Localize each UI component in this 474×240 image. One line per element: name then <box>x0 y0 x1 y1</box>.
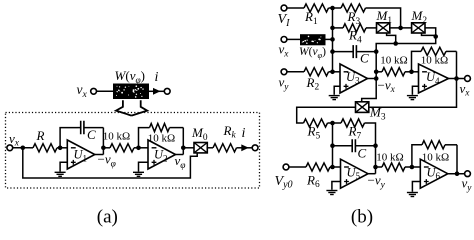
label U4 <box>426 70 440 86</box>
svg-text:(a): (a) <box>97 206 118 227</box>
label i (emulator output current) <box>242 126 246 141</box>
capacitor C (U3 integrator) <box>333 45 377 58</box>
wire <box>97 90 114 92</box>
node U3 inverting input <box>330 70 335 75</box>
implication arrow (hollow double arrow down) <box>116 100 147 115</box>
resistor R_k <box>207 144 248 152</box>
wire M1 lower pin <box>387 33 396 44</box>
wire M2 output <box>376 28 436 52</box>
resistor 10 kOhm between U5 and U6 <box>376 163 412 171</box>
caption (b) <box>351 206 373 227</box>
wire (U1 feedback right leg) <box>102 128 104 155</box>
node M1 lower pin / rail <box>393 41 398 46</box>
node M1 output / R3 <box>398 26 403 31</box>
resistor 10 kOhm (U2 feedback) <box>150 124 184 132</box>
wire <box>326 38 333 40</box>
wire (U3 output vertical) <box>362 52 377 102</box>
label U1 <box>74 148 88 164</box>
node at v_x input <box>21 146 26 151</box>
caption (a) <box>97 206 118 227</box>
memristor W(v_phi) black box <box>113 84 149 100</box>
label v_phi (U2 output) <box>175 153 186 171</box>
svg-text:(b): (b) <box>351 206 373 227</box>
wire (U5 output) <box>368 173 376 175</box>
terminal v_x of memristor symbol <box>91 88 97 94</box>
node R1/R3/bus <box>330 6 335 11</box>
label R2 <box>306 75 320 93</box>
svg-text:10 kΩ: 10 kΩ <box>103 131 130 143</box>
node at U1 inverting input <box>58 146 63 151</box>
label 10 kOhm (U5-U6) <box>376 152 403 164</box>
node at U2 inverting input <box>136 146 141 151</box>
label 10 kOhm (U2 feedback) <box>148 133 175 145</box>
wire <box>412 166 420 168</box>
wire with current arrow i <box>149 88 164 95</box>
label R <box>36 128 45 143</box>
label M1 <box>376 8 393 26</box>
label R4 <box>348 28 362 46</box>
node capacitor / output vertical <box>374 49 379 54</box>
label M2 <box>411 8 428 26</box>
wire (input summing bus) <box>332 8 334 72</box>
terminal V_y0 <box>283 164 289 170</box>
resistor R2 <box>287 68 333 76</box>
capacitor C (U5 integrator) <box>333 139 376 152</box>
terminal i of memristor symbol <box>164 88 170 94</box>
label 10 kOhm (U3-U4) <box>380 55 407 67</box>
svg-text:i: i <box>155 70 159 85</box>
label -v_y (U5 output) <box>368 173 386 191</box>
svg-text:C: C <box>360 51 369 66</box>
node 10k row / output vertical <box>374 70 379 75</box>
wire (U6 feedback left leg) <box>412 145 422 167</box>
resistor R <box>30 144 67 152</box>
op-amp U2 <box>148 140 176 169</box>
capacitor C (U1 integrator feedback) <box>78 121 104 135</box>
label C (U3 capacitor) <box>360 51 369 66</box>
ground at U5 non-inverting input <box>326 182 340 195</box>
resistor R3 <box>333 4 401 28</box>
resistor R5 <box>304 119 333 127</box>
node U5 inverting input <box>330 165 335 170</box>
svg-text:10 kΩ: 10 kΩ <box>421 55 448 67</box>
wire M1 to M2 <box>390 27 412 29</box>
label v_x (input of memristor symbol) <box>77 82 88 100</box>
node U6 output <box>455 171 460 176</box>
resistor 10 kOhm (U6 feedback) <box>422 141 457 149</box>
terminal v_x of emulator <box>7 145 13 151</box>
op-amp U3 <box>340 64 368 93</box>
node U5 output / 10k row <box>373 165 378 170</box>
wire (U3 output) <box>368 78 377 80</box>
svg-text:C: C <box>87 127 96 142</box>
wire (U6 feedback right leg) <box>456 145 458 175</box>
ground at U1 non-inverting input <box>55 162 68 176</box>
wire (lower summing bus) <box>332 123 334 167</box>
memristance W(v_phi) block <box>300 34 326 45</box>
wire M2 lower pin <box>422 33 436 35</box>
wire (U4 feedback left leg) <box>412 51 422 71</box>
dotted enclosure of emulator circuit (a) <box>6 113 260 189</box>
label 10 kOhm (series resistor) <box>103 131 130 143</box>
op-amp U1 <box>67 140 95 169</box>
label 10 kOhm (U6 feedback) <box>422 152 449 164</box>
node at U2 output <box>181 146 186 151</box>
label W(v_phi) <box>115 68 146 86</box>
label 10 kOhm (U4 feedback) <box>421 55 448 67</box>
node U4 output <box>454 76 459 81</box>
node U4 inverting input <box>409 70 414 75</box>
svg-text:W(vφ): W(vφ) <box>299 46 326 60</box>
multiplier M2 <box>412 23 425 33</box>
label C (U1 capacitor) <box>87 127 96 142</box>
node R5/R7 <box>330 121 335 126</box>
label M0 <box>191 125 208 143</box>
wire <box>412 71 419 73</box>
label R3 <box>347 9 361 27</box>
label V_I <box>278 12 291 29</box>
wire (M0 lower input from v_x rail) <box>23 148 197 178</box>
node U6 inverting input <box>410 165 415 170</box>
node R4/bus <box>330 26 335 31</box>
node capacitor row / bus <box>330 49 335 54</box>
terminal v_x (state input) <box>281 37 287 43</box>
ground at U3 non-inverting input <box>329 86 340 99</box>
resistor 10 kOhm between U3 and U4 <box>376 68 411 76</box>
label W(v_phi) block <box>299 46 326 60</box>
label R5 <box>307 124 321 142</box>
op-amp U5 <box>341 159 369 188</box>
current arrow i (emulator output) <box>241 144 252 151</box>
wire (U4 output) <box>449 78 465 80</box>
label R7 <box>348 124 362 142</box>
wire (U1 feedback left leg) <box>60 128 77 148</box>
label V_y0 <box>275 174 293 191</box>
terminal i of emulator <box>252 145 258 151</box>
wire (U6 output) <box>448 173 465 175</box>
resistor R6 <box>289 163 341 171</box>
label -v_x (U3 output) <box>378 77 396 95</box>
wire (U2 feedback right leg) <box>182 128 184 155</box>
wire <box>287 38 300 40</box>
resistor R4 <box>333 24 377 32</box>
node at U1 output <box>101 146 106 151</box>
node U3 output <box>374 76 379 81</box>
label v_y (input) <box>279 75 290 93</box>
svg-text:10 kΩ: 10 kΩ <box>376 152 403 164</box>
multiplier M0 <box>194 143 207 153</box>
wire <box>333 71 341 73</box>
label i (current) <box>155 70 159 85</box>
op-amp U4 <box>419 64 449 93</box>
wire (M3 output to R5) <box>297 107 356 123</box>
terminal V_I <box>281 5 287 11</box>
svg-text:R: R <box>36 128 45 143</box>
label v_x (emulator input) <box>9 131 20 149</box>
wire (U2 feedback left leg) <box>139 128 150 148</box>
label v_x (state input) <box>279 42 290 60</box>
resistor 10 kOhm (U4 feedback) <box>421 47 457 55</box>
terminal v_y (input) <box>281 69 287 75</box>
resistor 10 kOhm between U1 and U2 <box>103 144 148 152</box>
multiplier M3 <box>356 102 369 113</box>
multiplier M1 <box>377 23 390 33</box>
label R1 <box>304 9 318 27</box>
wire (U1 output) <box>95 154 104 156</box>
ground at U6 non-inverting input <box>407 182 420 197</box>
wire (U2 output) <box>176 154 184 156</box>
wire <box>183 147 194 149</box>
svg-text:C: C <box>358 146 367 161</box>
wire <box>13 147 30 149</box>
ground at U2 non-inverting input <box>133 162 148 176</box>
wire (U5 output vertical) <box>375 146 377 174</box>
label v_x (output) <box>460 81 471 99</box>
terminal v_x output <box>465 76 471 82</box>
node M2 output corner <box>433 34 438 39</box>
op-amp U6 <box>420 159 448 188</box>
wire (U4 feedback right leg) <box>456 51 458 78</box>
resistor R7 <box>333 119 376 146</box>
label v_y (output) <box>462 176 473 194</box>
resistor R1 <box>287 4 333 12</box>
node U5 capacitor / output vertical <box>373 143 378 148</box>
label R6 <box>306 172 320 190</box>
label U5 <box>347 165 361 181</box>
node capacitor row / lower bus <box>330 143 335 148</box>
svg-text:10 kΩ: 10 kΩ <box>380 55 407 67</box>
wire (U4 output down to M3) <box>369 79 457 108</box>
label U3 <box>346 70 360 86</box>
label U2 <box>154 148 168 164</box>
node W/bus <box>330 37 335 42</box>
svg-text:i: i <box>242 126 246 141</box>
ground at U4 non-inverting input <box>407 86 419 99</box>
label U6 <box>427 165 441 181</box>
label M3 <box>369 105 386 123</box>
label -v_phi (U1 output) <box>98 152 116 170</box>
label C (U5 capacitor) <box>358 146 367 161</box>
label R_k <box>223 123 237 141</box>
terminal v_y output <box>465 171 471 177</box>
